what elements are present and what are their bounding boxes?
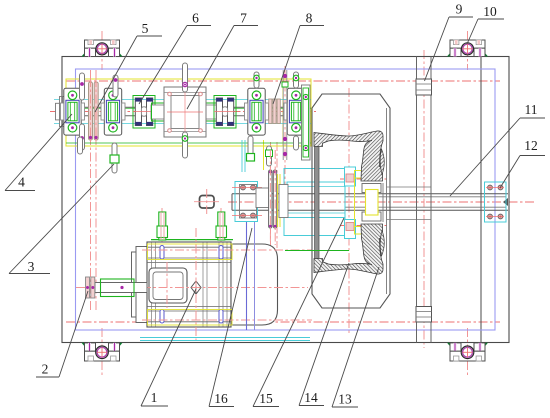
motor hold bolt right xyxy=(216,212,227,240)
label 3 leader xyxy=(9,164,114,274)
svg-text:1: 1 xyxy=(151,390,158,405)
svg-text:4: 4 xyxy=(18,175,25,190)
label 16 leader xyxy=(209,228,252,407)
yellow frame right bearings xyxy=(283,79,311,146)
svg-text:2: 2 xyxy=(42,362,49,377)
centerline disc left x90.5 xyxy=(90,70,92,310)
svg-text:16: 16 xyxy=(214,391,228,406)
green sensor line hub xyxy=(285,250,349,252)
centerline terminal box x167 xyxy=(166,262,168,308)
label 10 leader xyxy=(467,4,504,44)
blue chain lines below flange xyxy=(246,222,248,330)
svg-text:12: 12 xyxy=(524,138,538,153)
gearbox top bolt xyxy=(183,63,188,92)
gearbox 7 xyxy=(151,87,219,137)
pedestal bearing top-right 10 xyxy=(447,40,488,57)
bolt pill above block U1 xyxy=(80,73,85,100)
svg-text:3: 3 xyxy=(28,259,35,274)
wheel rim section hatched bottom xyxy=(314,224,384,274)
bolt pill below block U1 xyxy=(80,124,85,150)
hub yellow sleeve box xyxy=(366,190,379,216)
centerline over discs xyxy=(90,78,92,144)
centerline shaft axis y111.5 xyxy=(50,111,316,113)
motor 1 xyxy=(132,242,278,327)
label 9 leader xyxy=(425,2,474,82)
vertical guide rod 9 xyxy=(416,57,418,343)
yellow vertical x263.5 xyxy=(263,140,265,170)
centerline sprocket x270.5 xyxy=(270,142,272,248)
centerline motor axis y287.5 xyxy=(76,287,308,289)
disc stack right xyxy=(269,99,281,124)
rod clamp bottom xyxy=(416,307,432,323)
centerline axle y202 xyxy=(228,201,535,203)
rim left edge thick xyxy=(315,147,319,259)
motor bolt centerlines red xyxy=(142,249,312,251)
motor centerline redraw xyxy=(195,228,197,342)
svg-text:7: 7 xyxy=(240,11,247,26)
centerline motor vertical x196 xyxy=(195,228,197,342)
vertical tie rod 8 x285 xyxy=(282,70,288,160)
bolt pill left x80 below yellow xyxy=(78,137,83,154)
centerline wheel x349 xyxy=(348,88,350,334)
inner blue frame xyxy=(76,69,496,330)
motor foot slots xyxy=(160,246,164,260)
centerline hub y179 xyxy=(340,178,390,180)
green rail y143 xyxy=(66,142,311,144)
label 1 leader xyxy=(141,289,196,406)
centerline rod x423 xyxy=(423,50,425,348)
svg-text:15: 15 xyxy=(259,391,273,406)
left flange plate 16 xyxy=(232,182,262,222)
label 11 leader xyxy=(450,102,545,196)
cyan support pair x242-245 xyxy=(241,140,243,172)
centerline motor bolt x162 xyxy=(161,208,163,244)
svg-text:14: 14 xyxy=(304,390,318,405)
hub spacer top xyxy=(362,184,381,193)
centerline sprocket x277 xyxy=(276,142,278,248)
centerline hub y225.5 xyxy=(340,225,390,227)
bolt above U3 xyxy=(254,72,259,88)
axle bracket lines xyxy=(387,186,432,188)
centerline motor bolt x221 xyxy=(220,208,222,244)
label 12 leader xyxy=(500,138,545,188)
rod clamp top 9 xyxy=(416,79,432,95)
pedestal bearing bottom-right xyxy=(447,343,488,361)
bolt below U3 xyxy=(248,136,253,161)
svg-text:6: 6 xyxy=(192,11,199,26)
support plate x302-310 xyxy=(302,85,311,160)
bearing block U3 (8) xyxy=(245,88,269,135)
pulley discs 5 xyxy=(89,82,99,140)
centerline vertical rod x285 xyxy=(284,66,286,196)
label 13 leader xyxy=(332,267,379,407)
svg-text:10: 10 xyxy=(483,4,497,19)
shaft left end flanges 4 xyxy=(56,97,65,127)
centerline gearbox bolt x185 xyxy=(184,66,186,160)
base plate outline xyxy=(62,57,509,343)
cyan rail bottom xyxy=(140,337,310,339)
bearing block U2 xyxy=(101,88,125,135)
motor center diamond xyxy=(191,281,201,294)
motor green base line xyxy=(151,239,233,241)
motor shaft 2 xyxy=(86,277,148,298)
centerline horizontal top y81 xyxy=(66,80,500,82)
label 6 leader xyxy=(139,11,211,105)
coupling 8-left xyxy=(214,96,236,129)
centerline bearing column left x102 xyxy=(101,31,103,70)
wheel rim bead lens right xyxy=(380,149,384,175)
bolt below U4 xyxy=(294,136,299,150)
label 2 leader xyxy=(36,291,88,377)
label 7 leader xyxy=(187,11,258,110)
hub spacer bottom xyxy=(362,212,381,221)
bearing block U4 xyxy=(284,88,308,135)
label 4 leader xyxy=(5,114,72,191)
bearing block U1 (4) xyxy=(61,88,85,135)
hub pink seals xyxy=(346,174,354,182)
svg-text:13: 13 xyxy=(338,392,352,407)
motor yellow band boxes xyxy=(148,244,233,260)
shaft right end xyxy=(304,107,310,116)
pedestal bearing bottom-left xyxy=(82,343,123,361)
axle shaft 11 xyxy=(232,194,508,210)
label 15 leader xyxy=(253,218,344,407)
motor terminal box xyxy=(149,268,187,303)
bolt pill below block U2 (3) xyxy=(112,143,117,173)
wheel support box 13 xyxy=(312,94,390,308)
rim right edge xyxy=(386,108,388,294)
junction block xyxy=(200,196,215,209)
green nut on bolt 3 xyxy=(110,155,119,163)
motor hold bolt left xyxy=(157,212,168,240)
label 8 leader xyxy=(273,11,324,105)
sprocket discs 15 xyxy=(269,170,277,228)
right flange bracket 12 xyxy=(485,182,507,222)
centerline horizontal bottom y322 xyxy=(66,321,500,323)
svg-text:5: 5 xyxy=(142,21,149,36)
hub housing cyan xyxy=(279,169,345,236)
svg-text:8: 8 xyxy=(306,11,313,26)
centerline bearing column right x467.5 xyxy=(467,31,469,70)
axle collar xyxy=(256,188,269,208)
shaft 5 horizontal bar xyxy=(59,106,309,108)
gearbox bottom bolt xyxy=(183,132,188,158)
plate fold line x481 xyxy=(480,57,482,343)
sprocket centerlines xyxy=(269,150,271,245)
bolt pill above block U2 xyxy=(113,75,118,97)
bolt above U4 xyxy=(294,72,299,88)
label 5 leader xyxy=(95,21,162,112)
sprocket yellow guides xyxy=(277,174,279,227)
cyan rail y99.5 xyxy=(54,99,311,101)
coupling 6 xyxy=(133,96,155,129)
cyan rail y123.5 xyxy=(54,123,311,125)
svg-text:9: 9 xyxy=(456,2,463,17)
bolt below disc stack xyxy=(267,146,272,166)
green rail y108 xyxy=(66,107,311,109)
hub bearing cyan caps xyxy=(345,167,356,186)
green nut below U3 xyxy=(247,154,255,162)
yellow sub-frame top assembly xyxy=(66,79,311,146)
pedestal bearing top-left (10-type) xyxy=(82,40,123,57)
hub yellow sleeve 14 xyxy=(354,170,378,234)
wheel rim section hatched top xyxy=(314,131,383,181)
svg-text:11: 11 xyxy=(525,102,538,117)
label 14 leader xyxy=(299,263,349,406)
centerline disc left x96 xyxy=(95,70,97,310)
